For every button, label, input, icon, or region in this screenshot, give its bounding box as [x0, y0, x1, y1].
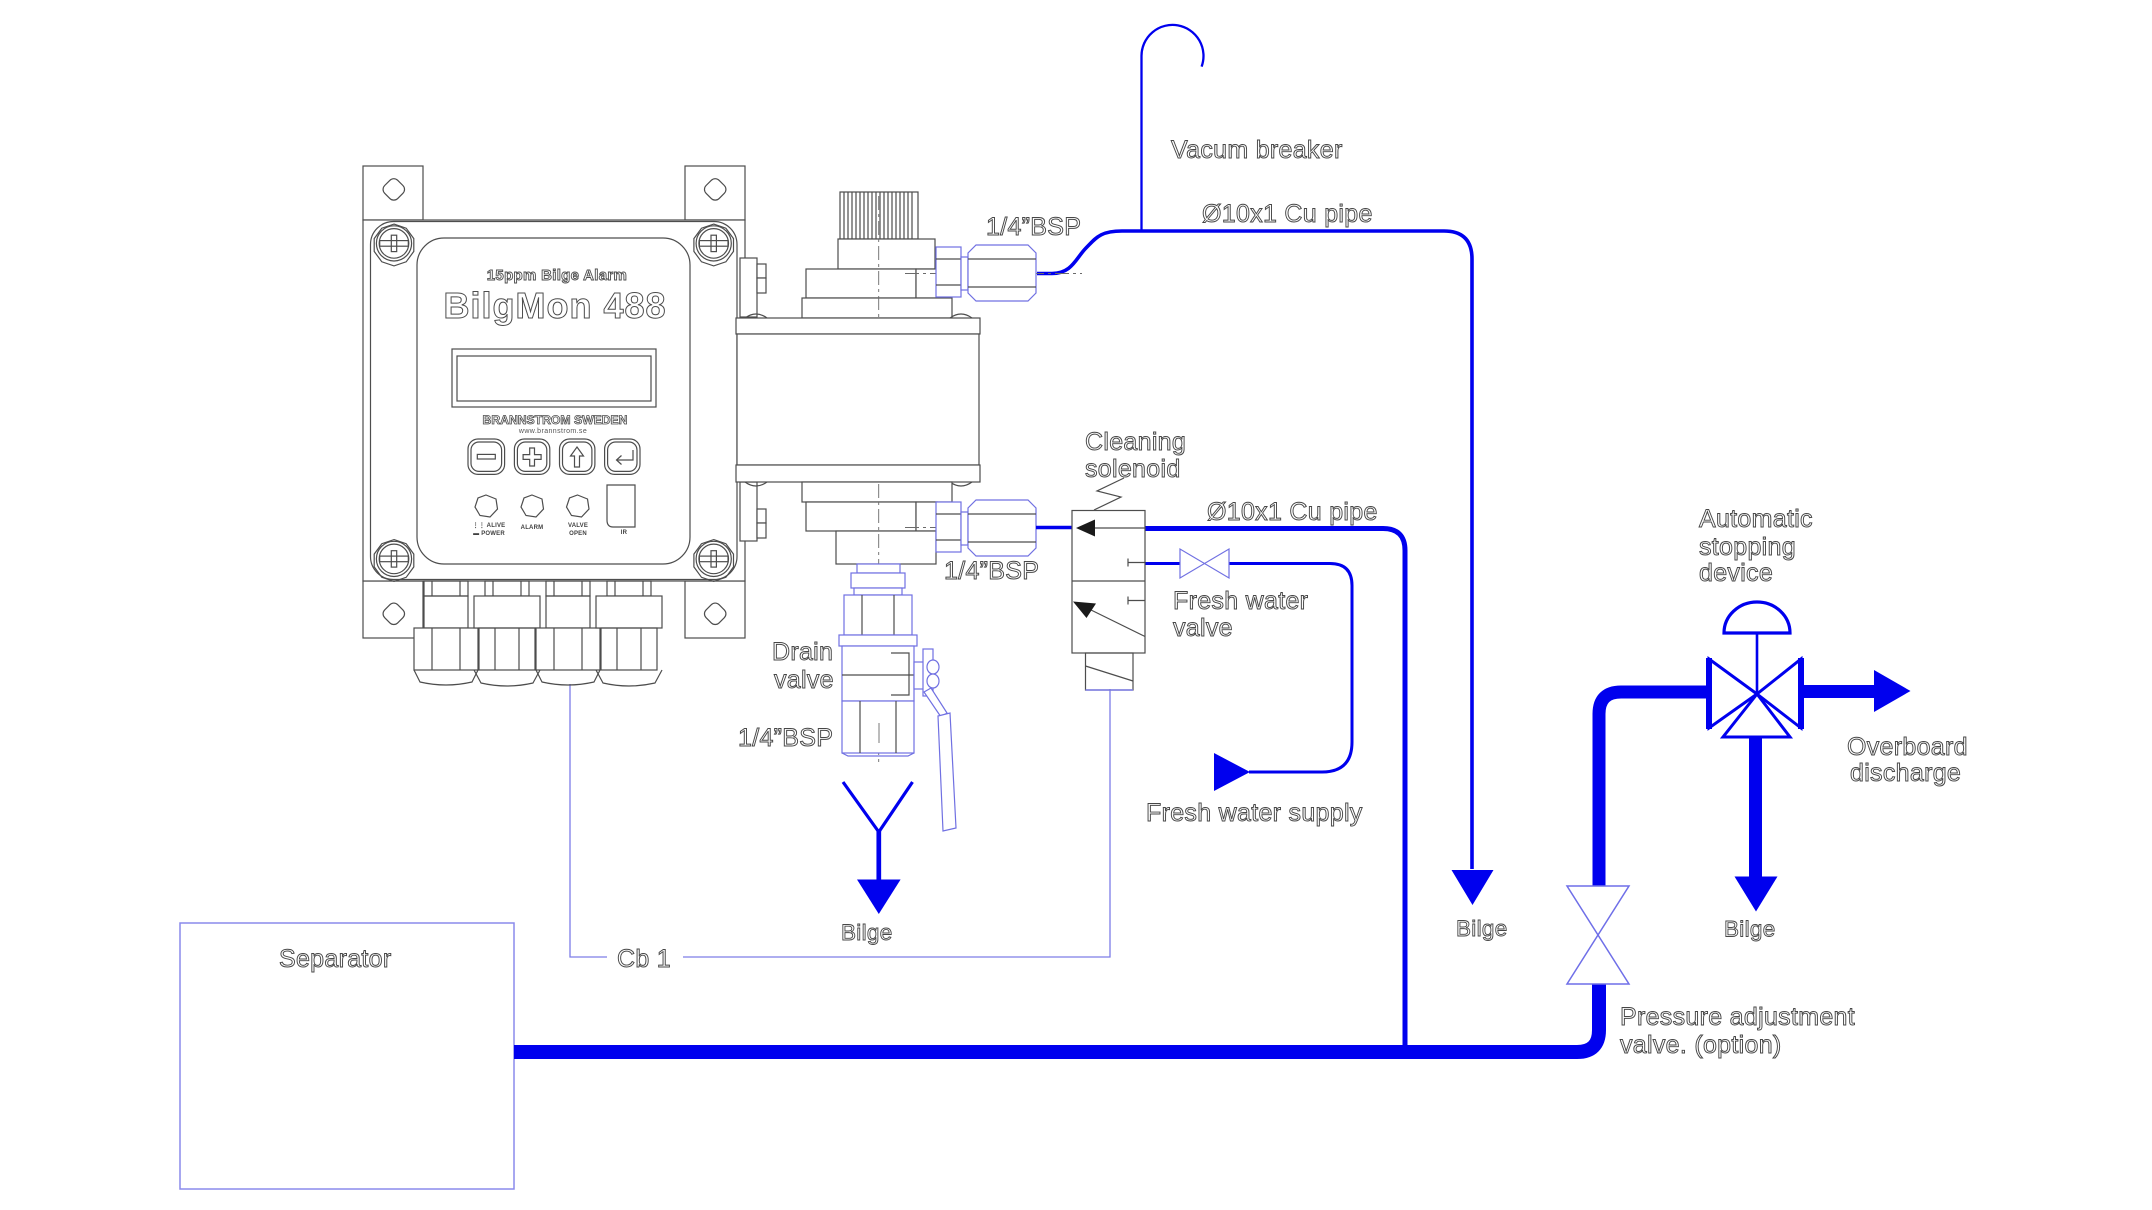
mounting plate tab bottom-right	[685, 581, 745, 638]
automatic stopping device: bottom triangle	[1723, 694, 1790, 737]
svg-text:ALARM: ALARM	[521, 525, 544, 531]
mounting plate tab top-left	[363, 166, 423, 220]
svg-text:Fresh water supply: Fresh water supply	[1146, 799, 1363, 827]
centerline top fitting	[905, 273, 1082, 275]
pressure adjustment valve (option)	[1567, 886, 1629, 984]
cable gland 1	[414, 581, 478, 685]
separator box	[180, 923, 514, 1189]
svg-text:BRANNSTROM SWEDEN: BRANNSTROM SWEDEN	[483, 413, 628, 427]
LED label alive/power	[473, 522, 506, 537]
sensor lower blocks	[802, 482, 952, 564]
arrowhead: fresh water supply	[1214, 753, 1250, 791]
svg-text:BilgMon 488: BilgMon 488	[443, 285, 666, 326]
svg-text:⋮⋮ ALIVE: ⋮⋮ ALIVE	[473, 522, 506, 529]
svg-text:valve: valve	[1173, 614, 1233, 642]
svg-text:Bilge: Bilge	[1456, 916, 1508, 941]
svg-text:valve: valve	[774, 666, 834, 694]
centerline bottom fitting	[905, 527, 1085, 529]
svg-text:Automatic: Automatic	[1699, 505, 1813, 533]
bilge branch arrow below stopping device	[1735, 736, 1778, 912]
control unit enclosure BilgMon 488	[363, 220, 745, 581]
automatic stopping device: right triangle	[1757, 658, 1801, 729]
svg-text:www.brannstrom.se: www.brannstrom.se	[518, 428, 587, 435]
cable gland 3	[536, 581, 600, 685]
svg-text:1/4”BSP: 1/4”BSP	[738, 724, 833, 752]
svg-text:Overboard: Overboard	[1847, 733, 1968, 761]
vacuum breaker hook pipe	[1141, 25, 1203, 231]
pipe stub from bottom fitting to solenoid	[1036, 526, 1073, 530]
measuring cell body	[736, 318, 980, 482]
LED valve open	[567, 495, 590, 517]
button plus	[514, 439, 549, 474]
LED alarm	[521, 495, 544, 517]
automatic stopping device: diaphragm actuator dome	[1724, 602, 1790, 633]
svg-text:Pressure adjustment: Pressure adjustment	[1620, 1003, 1855, 1031]
cleaning solenoid spring symbol	[1094, 478, 1124, 510]
svg-text:Separator: Separator	[279, 945, 392, 973]
sensor electrical connector (ribbed)	[840, 192, 918, 239]
pipe: thick riser from pressure valve up to automatic stopping device	[1599, 692, 1710, 886]
cleaning solenoid coil	[1086, 653, 1134, 690]
svg-text:stopping: stopping	[1699, 533, 1796, 561]
compression fitting top (1/4 BSP)	[936, 245, 1036, 301]
pipe: main discharge line from separator (thick)	[514, 984, 1599, 1052]
svg-text:device: device	[1699, 559, 1773, 587]
LCD display window	[452, 349, 656, 407]
sensor connector base blocks	[802, 239, 952, 318]
svg-text:▬ POWER: ▬ POWER	[473, 531, 505, 537]
screw top-right	[694, 224, 734, 266]
overboard discharge arrow	[1801, 670, 1911, 712]
svg-text:Cb 1: Cb 1	[617, 945, 671, 973]
svg-text:Ø10x1 Cu pipe: Ø10x1 Cu pipe	[1202, 200, 1373, 228]
cable gland 4	[596, 581, 662, 686]
mounting plate tab bottom-left	[363, 581, 423, 638]
centerline vertical through sensor and drain valve	[878, 484, 880, 762]
IR window	[607, 485, 635, 527]
svg-text:Ø10x1 Cu pipe: Ø10x1 Cu pipe	[1207, 498, 1378, 526]
svg-text:1/4”BSP: 1/4”BSP	[944, 557, 1039, 585]
pipe: Cu pipe from sensor top fitting over to bilge drop (vacuum line)	[1037, 231, 1472, 869]
svg-text:valve. (option): valve. (option)	[1620, 1031, 1782, 1059]
svg-text:discharge: discharge	[1850, 759, 1961, 787]
svg-text:IR: IR	[621, 530, 628, 536]
automatic stopping device: 3-way valve left triangle	[1709, 658, 1757, 729]
mounting plate tab top-right	[685, 166, 745, 220]
svg-text:Drain: Drain	[772, 638, 833, 666]
screw bottom-left	[374, 540, 414, 582]
drain Y-funnel to bilge	[843, 782, 913, 914]
LED alive/power	[475, 495, 498, 517]
fresh water valve (manual valve symbol)	[1180, 549, 1229, 578]
centerline vertical through top connector stack	[878, 196, 880, 318]
sensor mounting bracket lower	[740, 482, 766, 541]
automatic stopping device: actuator stem	[1756, 633, 1759, 694]
LED label valve open	[568, 523, 588, 537]
svg-text:Fresh water: Fresh water	[1173, 587, 1308, 615]
svg-text:1/4”BSP: 1/4”BSP	[986, 213, 1081, 241]
sensor mounting bracket upper	[740, 258, 766, 317]
screw bottom-right	[694, 540, 734, 582]
arrowhead: bilge drop of vacuum line	[1452, 870, 1494, 905]
svg-text:solenoid: solenoid	[1085, 455, 1181, 483]
drain valve assembly	[839, 564, 956, 831]
button minus	[468, 439, 505, 474]
svg-text:Cleaning: Cleaning	[1085, 428, 1186, 456]
screw top-left	[374, 224, 414, 266]
measuring cell flange feet	[745, 314, 972, 486]
button enter	[605, 439, 640, 474]
svg-text:Vacum breaker: Vacum breaker	[1171, 136, 1343, 164]
svg-text:Bilge: Bilge	[841, 920, 893, 945]
pipe: cleaning solenoid outlet Cu pipe down to main line	[1145, 529, 1405, 1047]
compression fitting bottom (1/4 BSP)	[936, 500, 1036, 556]
button arrow-up	[560, 439, 595, 474]
svg-text:15ppm Bilge Alarm: 15ppm Bilge Alarm	[487, 267, 627, 284]
cleaning solenoid valve body	[1072, 511, 1145, 654]
cable gland 2	[474, 581, 540, 686]
wire Cb1 control cable from control unit to cleaning solenoid	[570, 684, 1110, 957]
svg-text:Bilge: Bilge	[1724, 917, 1776, 942]
svg-text:OPEN: OPEN	[569, 531, 587, 537]
pipe: fresh water supply line through fresh water valve	[1145, 564, 1352, 773]
svg-text:VALVE: VALVE	[568, 523, 588, 529]
